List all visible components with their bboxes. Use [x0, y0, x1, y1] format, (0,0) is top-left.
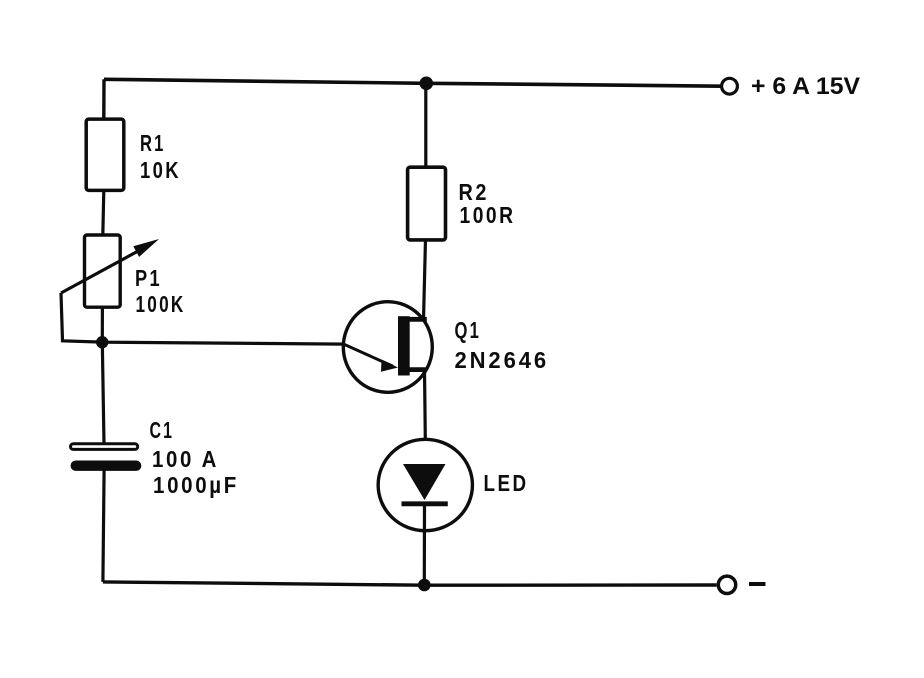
wire node to C1 [102, 342, 104, 444]
wire R1 to P1 [103, 191, 104, 237]
wire node to Q1 emitter [103, 342, 346, 344]
wire left rail top [102, 79, 106, 120]
wire C1 to bottom rail [103, 470, 104, 582]
resistor R1 [86, 119, 124, 190]
junction dot top [420, 77, 434, 91]
potentiometer P1 [61, 235, 159, 307]
terminal minus [718, 576, 735, 593]
wire bottom rail [103, 582, 717, 585]
transistor Q1 (UJT 2N2646) [343, 302, 432, 393]
svg-text:Q1: Q1 [455, 317, 482, 343]
svg-text:C1: C1 [150, 417, 175, 443]
resistor R2 [408, 167, 446, 240]
wire LED to bottom junction [423, 504, 426, 585]
svg-text:R1: R1 [140, 130, 166, 156]
svg-text:LED: LED [484, 470, 529, 496]
svg-text:+ 6 A 15V: + 6 A 15V [751, 73, 860, 100]
svg-text:2N2646: 2N2646 [455, 347, 550, 373]
wire wiper to node [61, 293, 103, 342]
svg-text:10K: 10K [140, 157, 181, 183]
capacitor C1 [71, 444, 142, 471]
svg-text:P1: P1 [135, 265, 162, 291]
wire Q1 base1 to LED [425, 370, 426, 465]
svg-text:100 A: 100 A [152, 446, 219, 472]
wire top rail [104, 79, 722, 86]
wire junction to R2 [424, 83, 427, 168]
node junction left [96, 336, 108, 348]
svg-text:100R: 100R [460, 202, 516, 228]
junction dot bottom [418, 579, 431, 592]
LED D1 [378, 439, 472, 530]
wire P1 bottom to node [101, 307, 104, 342]
wire R2 to Q1 base2 [424, 239, 426, 320]
terminal +6A15V [722, 78, 738, 94]
label minus [749, 582, 766, 586]
svg-text:1000µF: 1000µF [153, 472, 239, 498]
svg-text:100K: 100K [136, 291, 186, 317]
